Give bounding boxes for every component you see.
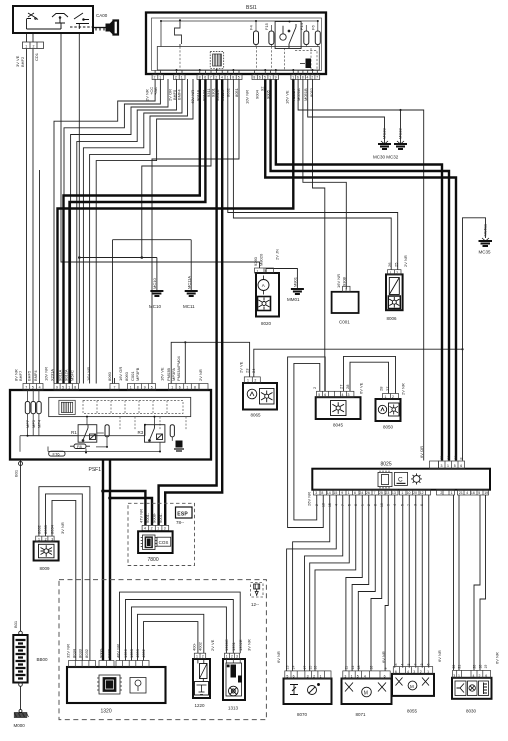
svg-text:2V NR: 2V NR bbox=[403, 255, 408, 267]
svg-text:M: M bbox=[410, 684, 414, 689]
svg-text:1: 1 bbox=[171, 385, 173, 389]
svg-text:7: 7 bbox=[341, 504, 345, 506]
svg-text:1: 1 bbox=[257, 269, 259, 273]
svg-text:7: 7 bbox=[210, 76, 212, 80]
svg-text:F15: F15 bbox=[264, 22, 269, 30]
svg-text:8009: 8009 bbox=[40, 566, 51, 571]
svg-text:M8020: M8020 bbox=[259, 253, 264, 266]
wire bold PSF1 to 1320 supply A bbox=[102, 459, 104, 661]
wire 8025 pin24 to 8071 pin3 bbox=[346, 495, 362, 671]
svg-text:2: 2 bbox=[265, 269, 267, 273]
svg-text:2: 2 bbox=[254, 379, 256, 383]
svg-text:2: 2 bbox=[33, 44, 35, 48]
svg-text:4: 4 bbox=[401, 664, 405, 666]
svg-text:12--: 12-- bbox=[251, 602, 260, 607]
svg-text:1: 1 bbox=[361, 504, 365, 506]
BSI1 pin group 5-cell bbox=[252, 75, 279, 80]
svg-text:28: 28 bbox=[379, 386, 384, 391]
7800 IC symbol bbox=[141, 535, 157, 550]
7800 wire labels bbox=[138, 509, 163, 523]
svg-text:4: 4 bbox=[335, 504, 339, 506]
wire MC32 stem branch bbox=[400, 110, 402, 144]
svg-text:3: 3 bbox=[51, 537, 53, 541]
wire 8025 pin13 to 8065 bottom pin6 bbox=[394, 495, 396, 668]
wire 8025 pin15 to 8070 pin5 bbox=[287, 495, 337, 671]
svg-text:19: 19 bbox=[484, 491, 488, 495]
svg-text:3: 3 bbox=[236, 655, 238, 659]
svg-text:2: 2 bbox=[367, 504, 371, 506]
svg-text:26V NR: 26V NR bbox=[307, 492, 312, 506]
svg-text:48V NR: 48V NR bbox=[116, 644, 121, 658]
svg-text:MC11: MC11 bbox=[183, 304, 195, 309]
svg-text:PM03A/PM04: PM03A/PM04 bbox=[176, 356, 181, 381]
7800 ECU box bbox=[138, 531, 173, 553]
svg-text:16V GR: 16V GR bbox=[118, 367, 123, 381]
ground MM01 bbox=[291, 289, 304, 294]
BSI1 micro connector symbol bbox=[210, 52, 224, 69]
wire 1320 to 1220 pin2 bbox=[138, 614, 204, 660]
svg-text:6V NR: 6V NR bbox=[276, 651, 281, 663]
svg-text:6: 6 bbox=[354, 504, 358, 506]
svg-text:8: 8 bbox=[374, 504, 378, 506]
svg-text:X231A: X231A bbox=[50, 369, 55, 381]
relay R1 bbox=[78, 425, 97, 443]
svg-text:21: 21 bbox=[458, 665, 462, 669]
ground MC11 bbox=[185, 291, 198, 296]
wire PSF1 to 8065 pin1 bbox=[171, 342, 249, 383]
svg-text:17: 17 bbox=[303, 666, 307, 670]
1320 wire labels bbox=[66, 644, 147, 658]
svg-text:C: C bbox=[398, 477, 403, 484]
svg-text:1351: 1351 bbox=[231, 641, 236, 651]
svg-text:24: 24 bbox=[251, 368, 256, 373]
engine dashed enclosure box bbox=[59, 580, 266, 720]
svg-text:25: 25 bbox=[393, 262, 398, 267]
1313 wire labels bbox=[224, 639, 252, 651]
wire 8025 to 8065 bottom pin3 bbox=[415, 495, 417, 668]
svg-text:4: 4 bbox=[407, 670, 409, 674]
ground MC30 bbox=[378, 141, 391, 149]
svg-text:8033: 8033 bbox=[43, 524, 48, 534]
wire ladder W2 bbox=[64, 79, 160, 384]
svg-text:2: 2 bbox=[440, 491, 442, 495]
wire ladder W4 bbox=[77, 79, 177, 384]
svg-text:BSI1: BSI1 bbox=[246, 5, 257, 11]
svg-text:3: 3 bbox=[307, 674, 309, 678]
svg-text:1328C: 1328C bbox=[224, 639, 229, 651]
junction bold A bbox=[101, 489, 105, 493]
wire ladder W5 bbox=[83, 79, 182, 384]
svg-text:BHF5: BHF5 bbox=[27, 370, 32, 381]
svg-text:3: 3 bbox=[344, 674, 346, 678]
svg-text:8050: 8050 bbox=[383, 425, 394, 430]
wire BSI pin to MC10 junction bbox=[142, 79, 211, 258]
fuse F8 bbox=[70, 444, 90, 449]
svg-text:8025: 8025 bbox=[381, 462, 392, 468]
svg-text:11: 11 bbox=[345, 666, 349, 670]
wire BSI pin to MC32 ground bbox=[308, 79, 385, 144]
svg-text:16V VE: 16V VE bbox=[285, 90, 290, 104]
svg-text:2: 2 bbox=[151, 527, 153, 531]
wire bold PSF1 to 7800 pin4 branch bbox=[103, 491, 145, 525]
svg-text:4002: 4002 bbox=[198, 641, 203, 651]
svg-text:1: 1 bbox=[351, 674, 353, 678]
svg-text:14: 14 bbox=[291, 666, 295, 670]
svg-text:2V NR: 2V NR bbox=[401, 383, 406, 395]
svg-text:5: 5 bbox=[62, 385, 64, 389]
7800 pin numbers bbox=[144, 527, 166, 531]
wire 8025 pin6 to 8070 pin1 bbox=[315, 495, 356, 671]
wire bold BSI to PSF1 pin 5 bbox=[64, 79, 200, 384]
junction bold B bbox=[108, 496, 112, 500]
wire MC10 ground branch bbox=[79, 258, 157, 292]
svg-text:13: 13 bbox=[392, 491, 396, 495]
BSI1 pin group 2|1 second bbox=[174, 75, 186, 80]
8025 IC symbol bbox=[378, 471, 392, 489]
svg-text:6V NR: 6V NR bbox=[381, 651, 386, 663]
svg-text:13: 13 bbox=[322, 503, 326, 507]
svg-text:5: 5 bbox=[238, 76, 240, 80]
svg-text:1: 1 bbox=[227, 76, 229, 80]
key symbol at CA00 bbox=[93, 21, 118, 35]
svg-text:16: 16 bbox=[471, 491, 475, 495]
svg-text:8034: 8034 bbox=[49, 524, 54, 534]
wire 8025 pin25 to 8071 pin4 bbox=[371, 495, 382, 671]
wire BSI pin to C001 pin1 bbox=[303, 79, 346, 290]
svg-text:PSF1: PSF1 bbox=[89, 467, 102, 473]
wire 1320 to 1313 pin3 bbox=[120, 592, 241, 660]
fan connector 8055 bottom bbox=[392, 667, 434, 696]
svg-text:4032: 4032 bbox=[141, 648, 146, 658]
svg-text:2V VE: 2V VE bbox=[238, 361, 243, 373]
svg-text:8: 8 bbox=[232, 76, 234, 80]
BSI1 pin group 8-cell bbox=[197, 75, 242, 80]
svg-text:15: 15 bbox=[328, 503, 332, 507]
wire 1320 to 1313 pin2 bbox=[126, 600, 234, 661]
svg-text:6: 6 bbox=[259, 76, 261, 80]
wire 8025 pin7 to 8071 pin5 bbox=[358, 495, 375, 671]
svg-text:1: 1 bbox=[345, 288, 347, 292]
wire BB00 to M000 ground bbox=[20, 686, 22, 710]
svg-text:1: 1 bbox=[68, 385, 70, 389]
8025 C symbol bbox=[395, 472, 408, 485]
8071 labels bbox=[345, 666, 388, 670]
junction 8065/8025 wire bbox=[461, 348, 463, 350]
svg-text:1356: 1356 bbox=[123, 648, 128, 658]
BSI1 box bbox=[146, 13, 326, 75]
svg-text:1: 1 bbox=[320, 674, 322, 678]
ground MC32 bbox=[394, 141, 407, 149]
svg-text:12: 12 bbox=[420, 491, 424, 495]
8065 bottom labels bbox=[394, 664, 431, 666]
BSI1 internal dashed links bbox=[180, 47, 311, 71]
wire 8025 pin26 to 8071 pin1 bbox=[352, 495, 369, 671]
svg-text:1220: 1220 bbox=[195, 703, 206, 708]
wire 8025 pin9 to 8070 pin3 bbox=[305, 495, 343, 671]
svg-text:1: 1 bbox=[196, 655, 198, 659]
wire name labels under BSI bbox=[145, 86, 314, 104]
throttle housing 1220 bbox=[193, 653, 210, 698]
wire CA00 to 8020 pin1 bbox=[61, 33, 260, 268]
wire stub PSF1 pin 7 bbox=[114, 378, 116, 384]
8025 top pin numbers bbox=[441, 464, 463, 468]
svg-text:8045: 8045 bbox=[333, 423, 344, 428]
svg-text:1: 1 bbox=[385, 395, 387, 399]
svg-text:6: 6 bbox=[395, 670, 397, 674]
svg-text:M051A: M051A bbox=[296, 88, 301, 101]
svg-text:7: 7 bbox=[374, 491, 376, 495]
svg-text:M801: M801 bbox=[293, 276, 298, 287]
svg-text:9011K: 9011K bbox=[220, 89, 225, 101]
ABS ECU 7800 dashed enclosure bbox=[128, 503, 195, 565]
8025 bottom wire numbers bbox=[315, 503, 424, 507]
svg-text:8065: 8065 bbox=[251, 413, 262, 418]
svg-text:1: 1 bbox=[269, 76, 271, 80]
svg-text:1: 1 bbox=[25, 44, 27, 48]
wire BSI pin to 8006 pin1 bbox=[233, 79, 391, 270]
svg-text:8: 8 bbox=[194, 385, 196, 389]
wire CA00 to CD1 pin1 bbox=[26, 33, 28, 42]
wire BSI pin to PSF1 middle pin bbox=[152, 79, 239, 384]
wire CA00 down left bundle bbox=[78, 33, 80, 384]
PSF1 inner module box bbox=[49, 397, 191, 416]
wire BSI pin to 8045 pin6 bbox=[313, 79, 325, 391]
svg-text:5: 5 bbox=[407, 664, 411, 666]
svg-text:BHF7: BHF7 bbox=[18, 370, 23, 381]
svg-text:BMF4: BMF4 bbox=[33, 370, 38, 381]
svg-text:8060: 8060 bbox=[107, 371, 112, 381]
wire bold BSI to 8025 pin5 bbox=[265, 79, 456, 461]
svg-text:1: 1 bbox=[458, 674, 460, 678]
svg-text:1: 1 bbox=[38, 537, 40, 541]
node B01 bbox=[19, 462, 23, 466]
svg-text:5: 5 bbox=[348, 504, 352, 506]
svg-text:9012A: 9012A bbox=[64, 369, 69, 381]
wire stub PSF1 pin 4 bbox=[39, 170, 41, 384]
svg-text:1: 1 bbox=[159, 76, 161, 80]
8025 bottom pin numbers bbox=[315, 491, 488, 495]
svg-text:1: 1 bbox=[427, 670, 429, 674]
svg-text:7800: 7800 bbox=[148, 557, 159, 563]
svg-text:3: 3 bbox=[413, 670, 415, 674]
svg-text:8034: 8034 bbox=[71, 648, 76, 658]
svg-text:78--: 78-- bbox=[176, 520, 185, 525]
wire 8025 to 8065 bottom pin5 bbox=[402, 495, 404, 668]
svg-text:5: 5 bbox=[32, 385, 34, 389]
svg-text:FT6: FT6 bbox=[53, 451, 61, 456]
svg-text:8006: 8006 bbox=[387, 316, 398, 321]
svg-text:7: 7 bbox=[316, 76, 318, 80]
svg-text:21: 21 bbox=[459, 491, 463, 495]
svg-text:8: 8 bbox=[74, 385, 76, 389]
PSF1 internal ground component bbox=[174, 441, 184, 451]
svg-text:MF7: MF7 bbox=[25, 419, 30, 428]
svg-text:8032: 8032 bbox=[84, 648, 89, 658]
fuel pump 1313 bbox=[223, 653, 245, 700]
ESP label box bbox=[176, 507, 193, 518]
svg-text:6: 6 bbox=[384, 674, 386, 678]
svg-text:9308: 9308 bbox=[341, 276, 346, 286]
BSI pin numbers bbox=[154, 76, 319, 80]
svg-text:16V VE: 16V VE bbox=[160, 367, 165, 381]
svg-text:1320: 1320 bbox=[101, 709, 112, 715]
svg-text:4: 4 bbox=[466, 491, 468, 495]
svg-text:9008-: 9008- bbox=[152, 512, 157, 523]
svg-text:24: 24 bbox=[359, 491, 363, 495]
wire 8025 to 8065 bottom pin2 bbox=[421, 495, 423, 668]
svg-text:8052: 8052 bbox=[309, 87, 314, 97]
svg-text:4030: 4030 bbox=[135, 648, 140, 658]
fan motor 8050 bbox=[376, 394, 401, 422]
fuse MF7 bbox=[25, 402, 30, 414]
svg-text:6: 6 bbox=[420, 504, 424, 506]
BSI1 pin group 6-cell bbox=[291, 75, 320, 80]
svg-text:3: 3 bbox=[315, 491, 317, 495]
wire 8020 pin2 to MM01 bbox=[266, 269, 297, 290]
svg-text:4: 4 bbox=[342, 393, 344, 397]
wire ladder W7 bbox=[96, 79, 193, 384]
svg-text:10: 10 bbox=[407, 491, 411, 495]
wire bold BSI to 8025 pin1 bbox=[271, 79, 449, 461]
PSF1 fuse wires bbox=[28, 390, 146, 436]
svg-text:8033: 8033 bbox=[78, 648, 83, 658]
svg-text:2: 2 bbox=[311, 76, 313, 80]
svg-text:MC11A: MC11A bbox=[186, 276, 191, 289]
svg-text:15: 15 bbox=[308, 666, 312, 670]
ground MC10 bbox=[150, 291, 163, 296]
svg-text:8: 8 bbox=[302, 76, 304, 80]
svg-text:26: 26 bbox=[366, 491, 370, 495]
fuse F4 bbox=[254, 31, 259, 45]
svg-text:3V NR: 3V NR bbox=[60, 522, 65, 534]
svg-text:1: 1 bbox=[451, 491, 453, 495]
svg-text:6V OR: 6V OR bbox=[419, 446, 424, 458]
svg-text:6: 6 bbox=[485, 674, 487, 678]
fuse MF4 bbox=[37, 402, 42, 414]
svg-text:32V NR: 32V NR bbox=[66, 644, 71, 658]
svg-text:9260: 9260 bbox=[253, 256, 258, 266]
7800 pin connector bbox=[142, 525, 169, 530]
svg-text:10V NR: 10V NR bbox=[245, 90, 250, 104]
svg-text:F6: F6 bbox=[311, 25, 316, 30]
wire 8025 pin1 to 8070 pin2 bbox=[310, 495, 350, 671]
svg-text:8: 8 bbox=[321, 491, 323, 495]
svg-text:A: A bbox=[262, 283, 265, 288]
svg-text:1: 1 bbox=[130, 385, 132, 389]
svg-text:4: 4 bbox=[307, 76, 309, 80]
svg-text:5: 5 bbox=[151, 385, 153, 389]
svg-text:9011A: 9011A bbox=[58, 369, 63, 381]
svg-text:ESP: ESP bbox=[177, 512, 188, 518]
wire ladder W6 bbox=[90, 79, 188, 384]
svg-text:10: 10 bbox=[370, 666, 374, 670]
svg-text:22: 22 bbox=[440, 456, 444, 460]
svg-text:8: 8 bbox=[137, 385, 139, 389]
svg-text:16V NR: 16V NR bbox=[86, 367, 91, 381]
fuse F14 bbox=[304, 31, 309, 45]
svg-text:20: 20 bbox=[413, 491, 417, 495]
svg-text:6: 6 bbox=[427, 664, 431, 666]
wire B01 to BB00 battery bbox=[20, 460, 22, 632]
svg-text:2: 2 bbox=[231, 655, 233, 659]
BSI1 pin group 2|1 left bbox=[152, 75, 320, 80]
svg-text:9005: 9005 bbox=[266, 89, 271, 99]
svg-text:2: 2 bbox=[392, 395, 394, 399]
fuse FT6 pill bbox=[49, 451, 65, 456]
svg-text:3: 3 bbox=[420, 664, 424, 666]
svg-text:3: 3 bbox=[414, 504, 418, 506]
svg-text:6: 6 bbox=[204, 76, 206, 80]
BSI1 small black component bbox=[300, 63, 305, 65]
svg-text:8: 8 bbox=[394, 664, 398, 666]
svg-text:18: 18 bbox=[357, 666, 361, 670]
wire 8025 to 8030 pin3 bbox=[453, 495, 455, 670]
wire 8045 pin4 to 8050 pin2 bbox=[344, 356, 396, 393]
svg-text:9001-: 9001- bbox=[145, 512, 150, 523]
svg-text:4: 4 bbox=[221, 76, 223, 80]
8025 bottom pin strip B bbox=[400, 490, 431, 495]
svg-text:1: 1 bbox=[186, 385, 188, 389]
wire 8025 pin23 to 8071 pin6 bbox=[385, 495, 388, 671]
svg-text:M5FC: M5FC bbox=[70, 370, 75, 381]
wire 8009 pin1 to 1320 bbox=[39, 487, 90, 661]
control unit 8025 bbox=[312, 469, 490, 490]
svg-text:3: 3 bbox=[441, 464, 443, 468]
PSF1 top pin numbers bbox=[25, 385, 196, 389]
svg-text:5: 5 bbox=[286, 674, 288, 678]
svg-text:MM01: MM01 bbox=[287, 297, 300, 302]
svg-text:COS: COS bbox=[159, 540, 169, 545]
wire 8025 to 8030 pin4 (jog) bbox=[474, 495, 480, 670]
svg-text:5: 5 bbox=[454, 464, 456, 468]
svg-text:8060: 8060 bbox=[124, 371, 129, 381]
svg-text:15: 15 bbox=[333, 491, 337, 495]
svg-text:5: 5 bbox=[478, 491, 480, 495]
svg-text:5: 5 bbox=[357, 674, 359, 678]
svg-text:F14: F14 bbox=[299, 22, 304, 30]
wire PSF1 second feed bbox=[184, 342, 186, 383]
svg-text:2: 2 bbox=[45, 537, 47, 541]
svg-text:1: 1 bbox=[401, 491, 403, 495]
ground M000 bbox=[14, 710, 29, 718]
fuse box PSF1 bbox=[10, 390, 211, 460]
svg-text:MF4: MF4 bbox=[37, 419, 42, 428]
svg-text:10V NR: 10V NR bbox=[44, 367, 49, 381]
PSF1 junction dots bbox=[27, 416, 162, 454]
CA00 switch contacts bbox=[27, 13, 94, 29]
svg-text:1: 1 bbox=[247, 379, 249, 383]
svg-text:R1: R1 bbox=[71, 430, 77, 435]
8030 labels bbox=[452, 665, 488, 669]
svg-text:8071: 8071 bbox=[356, 712, 367, 717]
wire 8025 pin14 to 8070 pin6 bbox=[293, 495, 330, 671]
wire CD1 pin2 to PSF1 pin 5 bbox=[32, 49, 34, 384]
svg-text:B01: B01 bbox=[13, 469, 18, 477]
svg-text:C001: C001 bbox=[339, 320, 350, 325]
BSI1 fuse zigzag bbox=[175, 21, 182, 47]
svg-text:6V VE: 6V VE bbox=[359, 382, 364, 394]
svg-text:2: 2 bbox=[396, 271, 398, 275]
svg-text:6: 6 bbox=[354, 491, 356, 495]
svg-text:47V NR: 47V NR bbox=[138, 509, 143, 523]
svg-text:6: 6 bbox=[293, 674, 295, 678]
wire bold PSF1 to 7800 pin2 branch bbox=[110, 498, 152, 525]
svg-text:9002-: 9002- bbox=[106, 647, 111, 658]
labels 8009 bbox=[36, 522, 65, 534]
wire 8065 pin2 to 8025 pin6 bbox=[254, 349, 463, 377]
svg-text:3: 3 bbox=[453, 674, 455, 678]
wire bold BSI to 8025 pin3 bbox=[276, 79, 442, 461]
